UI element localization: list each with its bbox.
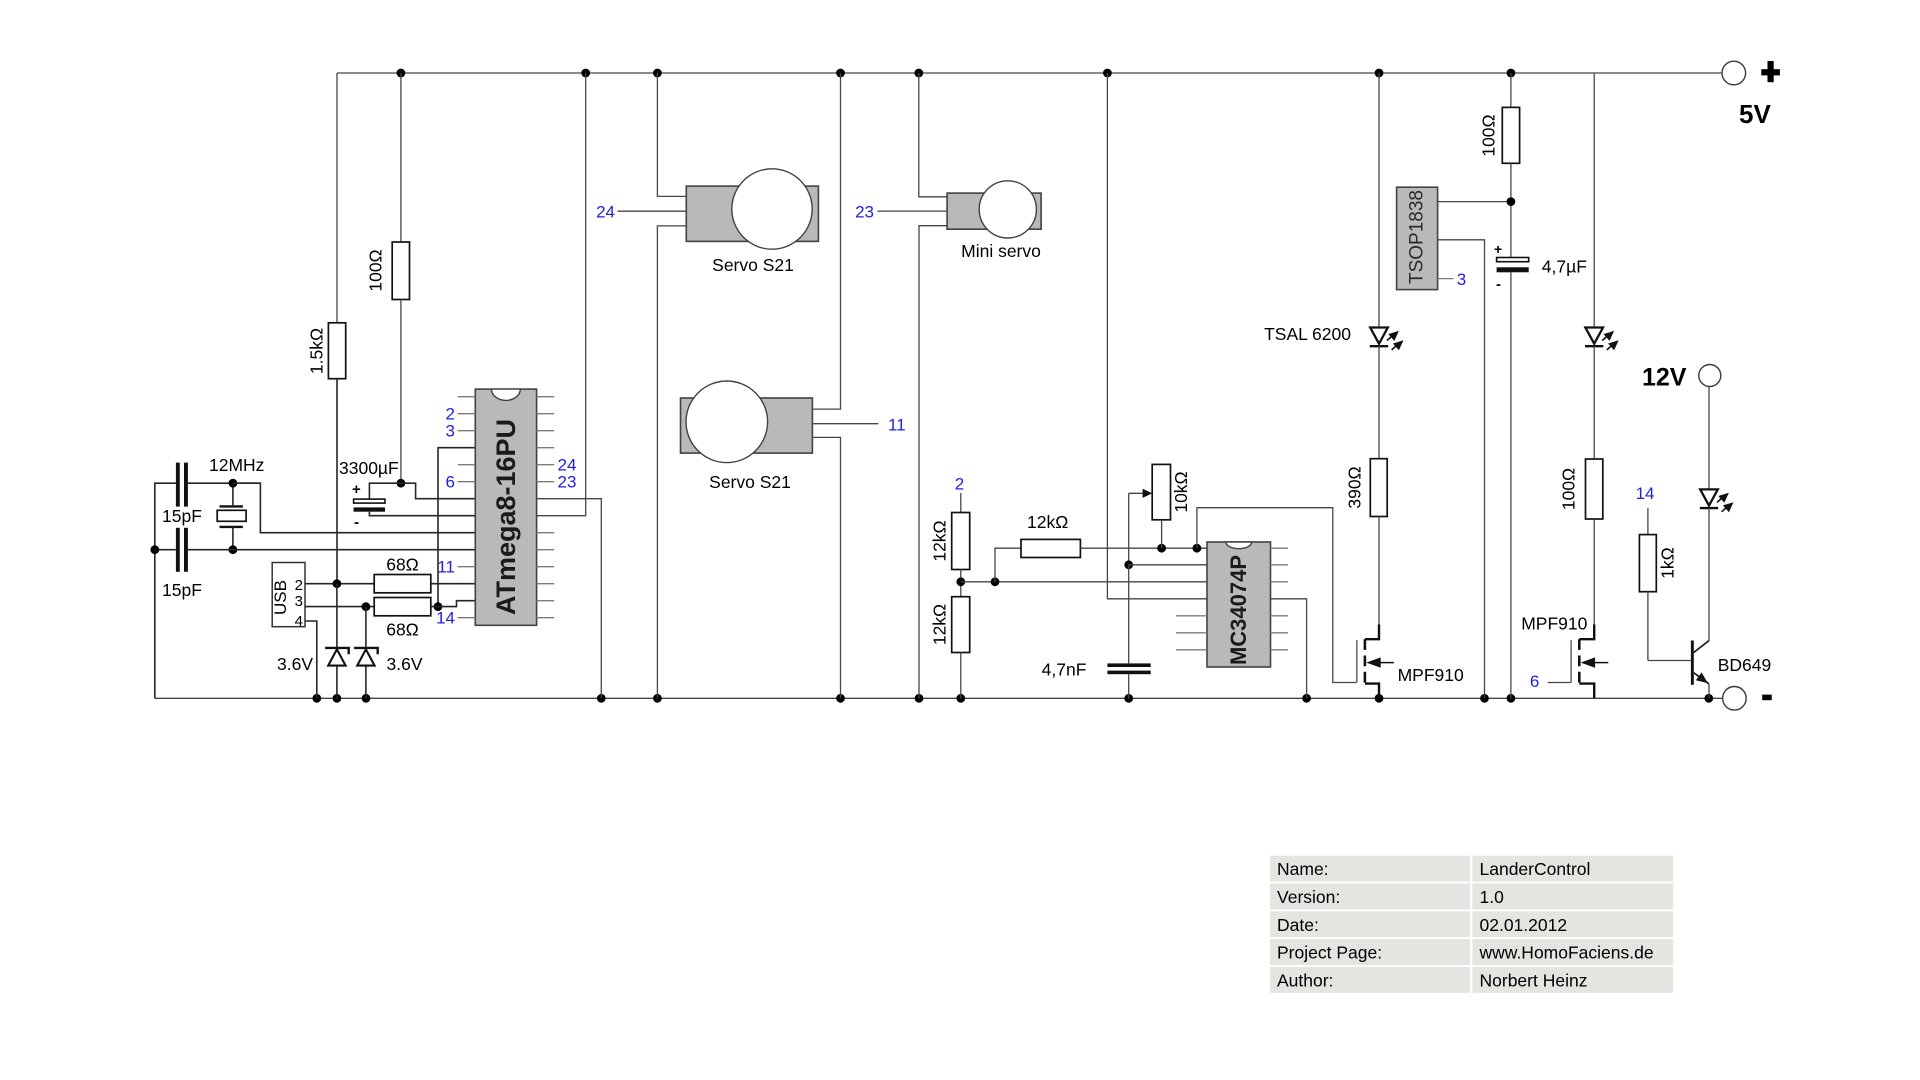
resistor R7 12k horizontal xyxy=(1021,512,1080,558)
pin stubs MC left xyxy=(1176,616,1207,650)
svg-text:1kΩ: 1kΩ xyxy=(1658,547,1678,579)
resistor R6 12k lower xyxy=(930,597,970,699)
node divider branch junction xyxy=(991,577,1000,586)
wire crystal top to ATmega pin9 xyxy=(233,483,475,533)
svg-text:12kΩ: 12kΩ xyxy=(930,604,950,645)
svg-text:6: 6 xyxy=(1530,672,1539,691)
table title block xyxy=(1270,856,1673,993)
wire gate route to Q1 xyxy=(1197,508,1357,683)
node junction dots on ground bus xyxy=(312,694,1713,703)
svg-text:MPF910: MPF910 xyxy=(1521,614,1587,634)
svg-text:11: 11 xyxy=(437,558,455,577)
crystal Q1 12MHz xyxy=(209,455,264,550)
svg-text:+: + xyxy=(1494,241,1502,257)
wire R7 to MC pin1 xyxy=(1080,547,1207,549)
svg-text:3.6V: 3.6V xyxy=(277,654,313,674)
potentiometer P1 10k xyxy=(1129,464,1191,548)
svg-text:6: 6 xyxy=(446,473,455,492)
svg-text:14: 14 xyxy=(436,609,455,628)
svg-text:3: 3 xyxy=(1457,270,1466,289)
svg-text:23: 23 xyxy=(855,203,874,222)
LED D3 xyxy=(1700,489,1734,640)
pin stubs ATmega right xyxy=(537,397,555,618)
node pin4 riser to 68R junction xyxy=(434,602,443,611)
svg-text:100Ω: 100Ω xyxy=(1478,114,1498,156)
node crystal bottom junction xyxy=(229,545,238,554)
servo M1 Servo S21 xyxy=(618,73,819,698)
svg-text:Name:: Name: xyxy=(1277,859,1329,879)
wire MC GND to bus xyxy=(1271,599,1307,699)
wire top 5V bus xyxy=(337,72,1722,74)
wire ATmega VCC to bus xyxy=(537,73,586,516)
wire VCC to MC pin4 xyxy=(1107,73,1207,599)
svg-text:BD649: BD649 xyxy=(1718,655,1772,675)
wire left ground branch xyxy=(155,483,176,698)
LED D1 TSAL 6200 xyxy=(1264,73,1403,459)
node gate branch junction xyxy=(1193,544,1202,553)
svg-text:12kΩ: 12kΩ xyxy=(1027,512,1068,532)
svg-text:4,7µF: 4,7µF xyxy=(1542,257,1587,277)
node divider junction xyxy=(956,577,965,586)
svg-text:USB: USB xyxy=(271,580,290,615)
svg-text:12kΩ: 12kΩ xyxy=(930,520,950,561)
svg-text:TSOP1838: TSOP1838 xyxy=(1407,190,1428,284)
capacitor C5 4.7uF electrolytic xyxy=(1494,241,1587,698)
pin labels ATmega left xyxy=(436,405,455,628)
svg-text:Project Page:: Project Page: xyxy=(1277,943,1382,963)
resistor R10 100R right xyxy=(1559,459,1603,624)
resistor R9 100R top right xyxy=(1478,73,1519,258)
capacitor C4 4.7nF xyxy=(1042,565,1151,699)
wire gate Q2 xyxy=(1548,682,1571,684)
svg-text:2: 2 xyxy=(295,577,303,594)
node D- junction xyxy=(333,579,342,588)
svg-text:15pF: 15pF xyxy=(162,506,202,526)
pin stubs ATmega left xyxy=(458,397,476,618)
resistor R5 12k upper xyxy=(930,493,970,597)
node wiper to MC pin2 junction xyxy=(1124,560,1133,569)
svg-text:-: - xyxy=(1496,276,1501,293)
svg-text:1.0: 1.0 xyxy=(1480,887,1505,907)
node R2 bottom junction xyxy=(397,479,406,488)
wire 12V down xyxy=(1708,387,1710,490)
wire USB pin4 to ground xyxy=(305,621,317,698)
svg-text:24: 24 xyxy=(596,203,615,222)
svg-text:3: 3 xyxy=(446,422,455,441)
wire TSOP pin2 to ground xyxy=(1438,240,1485,699)
svg-text:3300µF: 3300µF xyxy=(339,458,399,478)
svg-text:LanderControl: LanderControl xyxy=(1480,859,1591,879)
servo M2 Servo S21 xyxy=(681,73,879,698)
svg-text:12V: 12V xyxy=(1642,364,1687,392)
svg-text:Author:: Author: xyxy=(1277,970,1333,990)
svg-text:4,7nF: 4,7nF xyxy=(1042,660,1087,680)
svg-text:1.5kΩ: 1.5kΩ xyxy=(307,328,327,374)
wire R2 node to ATmega pin7 xyxy=(401,483,475,499)
terminal 12V xyxy=(1642,364,1721,392)
svg-text:MPF910: MPF910 xyxy=(1398,665,1464,685)
svg-text:11: 11 xyxy=(888,416,906,435)
node junction dots on 5V bus xyxy=(397,69,1516,78)
svg-text:MC34074P: MC34074P xyxy=(1226,555,1251,665)
svg-text:+: + xyxy=(352,481,361,498)
wire TSOP pin1 to 100R node xyxy=(1438,201,1511,203)
wire USB pin3 to 68R B xyxy=(305,606,374,608)
capacitor C2 15pF xyxy=(162,528,202,600)
terminal 5V plus xyxy=(1722,61,1780,129)
svg-text:-: - xyxy=(354,514,359,531)
transistor Q2 MPF910 xyxy=(1521,614,1608,699)
capacitor C1 15pF xyxy=(162,463,202,526)
wire ATmega GND to bus xyxy=(537,499,602,699)
wire branch riser to R7 xyxy=(995,548,1021,582)
resistor R11 1k xyxy=(1639,508,1677,661)
IC U3 TSOP1838 xyxy=(1397,187,1438,289)
pin stub TSOP pin3 xyxy=(1438,278,1454,280)
svg-text:12MHz: 12MHz xyxy=(209,455,264,475)
op-amp U1 ATmega8-16PU xyxy=(475,389,536,625)
connector USB xyxy=(271,563,305,631)
node D+ junction xyxy=(362,602,371,611)
diode Z2 zener 3.6V xyxy=(354,607,423,699)
diode Z1 zener 3.6V xyxy=(277,584,349,699)
terminal minus xyxy=(1723,687,1772,711)
svg-text:23: 23 xyxy=(558,473,577,492)
resistor R8 390R xyxy=(1345,459,1388,625)
svg-text:www.HomoFaciens.de: www.HomoFaciens.de xyxy=(1479,943,1654,963)
svg-text:Mini servo: Mini servo xyxy=(961,241,1041,261)
svg-text:100Ω: 100Ω xyxy=(1559,468,1579,510)
svg-text:Version:: Version: xyxy=(1277,887,1340,907)
wire wiper riser xyxy=(1128,493,1130,565)
LED D2 IR xyxy=(1585,73,1619,459)
transistor Q1 MPF910 xyxy=(1357,624,1464,698)
svg-text:68Ω: 68Ω xyxy=(386,620,419,640)
wire bottom ground bus xyxy=(155,697,1723,699)
svg-text:Servo S21: Servo S21 xyxy=(712,255,794,275)
wire divider to MC pin3 xyxy=(961,581,1207,583)
svg-text:68Ω: 68Ω xyxy=(386,555,419,575)
servo M3 Mini servo xyxy=(878,73,1042,698)
node pot bottom junction xyxy=(1157,544,1166,553)
svg-text:Norbert Heinz: Norbert Heinz xyxy=(1480,970,1588,990)
resistor R4 68R xyxy=(374,598,475,640)
svg-text:Date:: Date: xyxy=(1277,915,1319,935)
svg-text:14: 14 xyxy=(1636,484,1655,503)
svg-text:15pF: 15pF xyxy=(162,580,202,600)
svg-text:3.6V: 3.6V xyxy=(387,654,423,674)
svg-text:Servo S21: Servo S21 xyxy=(709,472,791,492)
transistor Q3 BD649 xyxy=(1648,641,1771,699)
wire to MC pin2 xyxy=(1129,564,1207,566)
svg-text:390Ω: 390Ω xyxy=(1345,466,1365,508)
resistor R1 1.5k xyxy=(307,73,346,584)
node crystal top junction xyxy=(229,479,238,488)
wire crystal bottom to ATmega pin10 xyxy=(155,549,176,551)
svg-text:3: 3 xyxy=(295,593,303,610)
node left rail junction xyxy=(150,545,159,554)
resistor R2 100R xyxy=(366,73,410,483)
svg-text:5V: 5V xyxy=(1739,99,1771,129)
pin stubs MC right xyxy=(1271,548,1289,650)
pin labels ATmega right xyxy=(558,456,577,492)
svg-text:TSAL 6200: TSAL 6200 xyxy=(1264,324,1351,344)
node TSOP supply junction xyxy=(1507,197,1516,206)
svg-text:10kΩ: 10kΩ xyxy=(1171,471,1191,512)
op-amp U2 MC34074P xyxy=(1207,542,1271,667)
resistor R3 68R xyxy=(374,555,475,593)
svg-text:100Ω: 100Ω xyxy=(366,249,386,291)
svg-text:4: 4 xyxy=(295,613,303,630)
wire ATmega pin4 riser xyxy=(438,448,475,607)
svg-text:2: 2 xyxy=(955,475,964,494)
svg-text:ATmega8-16PU: ATmega8-16PU xyxy=(491,419,521,615)
wire USB pin2 to 68R A xyxy=(305,583,374,585)
svg-text:02.01.2012: 02.01.2012 xyxy=(1480,915,1568,935)
capacitor C3 3300uF electrolytic xyxy=(339,458,475,531)
